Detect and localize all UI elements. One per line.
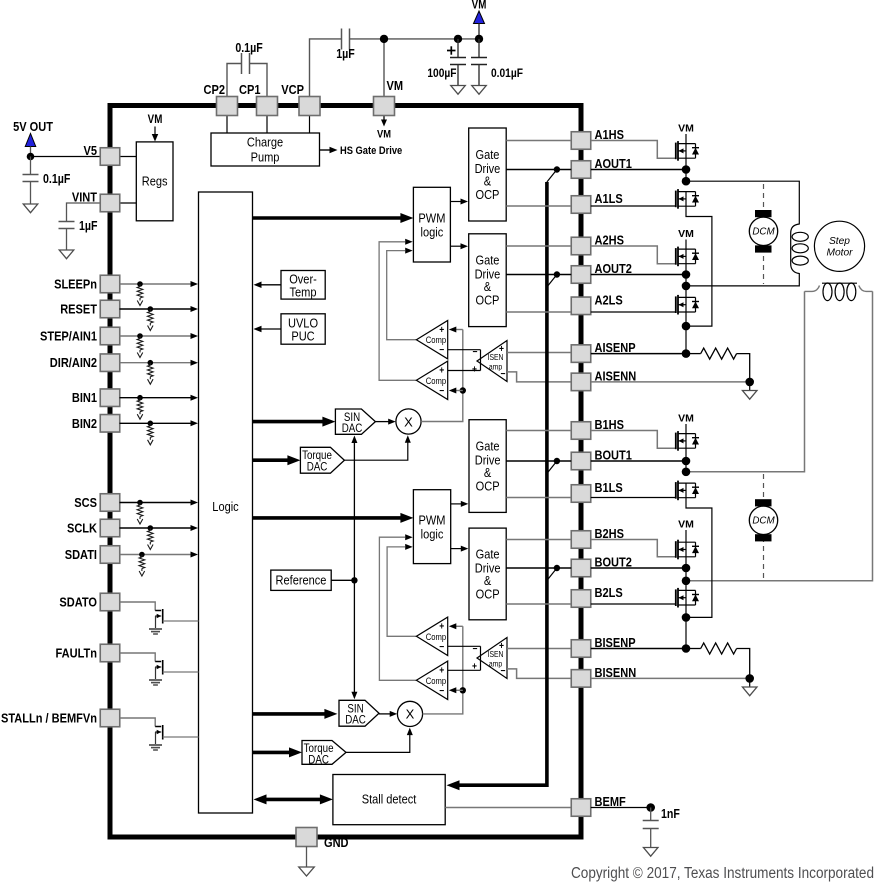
- resistor B sense: [686, 648, 701, 650]
- wire 0.1uF cap to CP1: [250, 64, 268, 98]
- multiplier X1: [396, 409, 421, 434]
- svg-text:B1LS: B1LS: [595, 480, 623, 495]
- junction BISENN ground node: [745, 674, 754, 683]
- svg-text:−: −: [439, 641, 444, 652]
- wire HS Gate Drive arrow: [320, 149, 332, 151]
- svg-text:0.1µF: 0.1µF: [235, 41, 262, 55]
- svg-text:1µF: 1µF: [336, 47, 355, 61]
- wire Gate Drive3 to BOUT1: [506, 460, 571, 462]
- motor DCM B top brush: [755, 499, 772, 506]
- svg-text:−: −: [439, 345, 444, 356]
- svg-text:+: +: [439, 365, 444, 376]
- svg-text:Logic: Logic: [212, 499, 238, 514]
- svg-text:PWM: PWM: [418, 211, 445, 226]
- pin SCS: [100, 494, 120, 512]
- pin BISENN: [571, 670, 591, 688]
- pin BIN1: [100, 389, 120, 407]
- wire Reference to node: [331, 579, 354, 581]
- capacitor 100uF plus sign: [447, 50, 456, 52]
- svg-text:Gate: Gate: [476, 439, 500, 454]
- junction B motor wire 1: [682, 468, 691, 477]
- wire PWM1 to Gate Drive 2: [450, 245, 461, 247]
- wire VM pin into chip: [383, 115, 385, 120]
- junction BISENP node: [682, 644, 691, 653]
- svg-text:PUC: PUC: [291, 328, 315, 343]
- capacitor 1uF (VCP-VM): [341, 29, 343, 50]
- svg-text:B2LS: B2LS: [595, 585, 623, 600]
- transistor A2HS FET: [675, 248, 677, 265]
- resistor pulldown BIN2: [149, 423, 151, 426]
- junction AOUT2 outer: [682, 270, 691, 279]
- pin VINT: [100, 194, 120, 212]
- supply 5V OUT triangle: [25, 134, 36, 147]
- svg-text:+: +: [439, 324, 444, 335]
- svg-text:VM: VM: [678, 123, 694, 135]
- junction RESET pulldown: [148, 306, 154, 312]
- wire A1HS gate: [591, 141, 676, 159]
- wire B motor wire 2: [686, 291, 873, 580]
- junction SCS pulldown: [137, 500, 143, 506]
- bus Logic to Stall detect (bidirectional): [262, 798, 323, 802]
- wire A2LS gate: [591, 311, 676, 313]
- wire Gate Drive1 to AOUT1: [506, 169, 571, 171]
- wire PWM2 to Gate Drive 3: [451, 503, 461, 505]
- junction BIN2 pulldown: [148, 421, 154, 427]
- pin BOUT1: [571, 452, 591, 470]
- transistor B2HS FET: [675, 541, 677, 558]
- block Gate Drive 4: [469, 528, 506, 620]
- pin GND: [296, 828, 317, 847]
- junction DIR/AIN2 pulldown: [148, 360, 154, 366]
- svg-text:CP2: CP2: [204, 82, 226, 97]
- svg-text:FAULTn: FAULTn: [56, 646, 97, 661]
- junction B motor wire 2: [682, 577, 691, 586]
- svg-text:Charge: Charge: [247, 135, 283, 150]
- wire comp B2 out to PWM2: [379, 537, 416, 680]
- svg-text:X: X: [406, 707, 415, 722]
- svg-text:HS Gate Drive: HS Gate Drive: [340, 145, 403, 157]
- pin BIN2: [100, 415, 120, 433]
- capacitor 1nF: [643, 820, 659, 822]
- svg-text:DAC: DAC: [307, 461, 328, 474]
- wire Over-Temp to Logic: [261, 284, 281, 286]
- svg-text:A2LS: A2LS: [595, 292, 623, 307]
- wire PWM2 to Gate Drive 4: [451, 548, 461, 550]
- supply VM triangle: [474, 11, 485, 24]
- junction SDATI pulldown: [139, 552, 145, 558]
- svg-text:DIR/AIN2: DIR/AIN2: [50, 355, 97, 370]
- dac SIN DAC 2: [339, 700, 379, 726]
- wire 100uF stem: [457, 39, 459, 58]
- wire Torque DAC2 to X2: [346, 733, 410, 752]
- svg-text:STALLn / BEMFVn: STALLn / BEMFVn: [1, 711, 97, 726]
- wire FAULTn to FET gate: [120, 653, 156, 662]
- svg-text:OCP: OCP: [475, 293, 499, 308]
- svg-text:Copyright © 2017, Texas Instru: Copyright © 2017, Texas Instruments Inco…: [571, 865, 874, 882]
- pin A2HS: [571, 237, 591, 255]
- ground below GND pin: [299, 867, 315, 876]
- block PWM logic 1: [413, 187, 450, 262]
- wire ISEN B out to comps: [448, 645, 481, 647]
- svg-text:−: −: [473, 346, 478, 357]
- wire V5 node to V5 pin: [31, 156, 101, 158]
- junction AOUT1 inner: [554, 166, 560, 172]
- pin B1LS: [571, 485, 591, 503]
- wire VINT pin to Regs: [120, 202, 137, 204]
- wire SCS to Logic: [120, 502, 192, 504]
- comparator Comp A2: [416, 361, 447, 399]
- svg-text:VM: VM: [387, 78, 404, 93]
- wire BIN1 to Logic: [120, 397, 192, 399]
- wire 1uF cap to VM rail: [350, 38, 480, 40]
- wire BISENP to sense node: [591, 648, 686, 650]
- wire B1LS source jog: [686, 498, 712, 618]
- ground A sense: [742, 391, 757, 400]
- wire 0.01uF stem: [478, 39, 480, 58]
- bus Logic to Torque DAC 2: [253, 751, 293, 755]
- capacitor 0.1uF (V5): [23, 174, 39, 176]
- resistor pulldown SLEEPn: [139, 284, 141, 287]
- wire V5 node to 0.1uF: [30, 157, 32, 175]
- svg-text:Gate: Gate: [475, 147, 499, 162]
- resistor A sense: [686, 353, 701, 355]
- resistor pulldown SCLK: [149, 528, 151, 531]
- svg-text:OCP: OCP: [475, 187, 499, 202]
- wire BOUT2 to FET node: [591, 567, 686, 569]
- wire 0.1uF V5 to ground: [30, 182, 32, 205]
- amplifier ISEN amp A: [477, 341, 507, 382]
- svg-text:logic: logic: [421, 527, 444, 542]
- dac Torque DAC 2: [302, 741, 346, 765]
- svg-text:SCS: SCS: [74, 495, 97, 510]
- wire STALLn/BEMFVn FET drain to Logic: [163, 736, 199, 738]
- bus Logic to Torque DAC 1: [253, 458, 291, 462]
- svg-text:SDATO: SDATO: [59, 595, 97, 610]
- pin A1LS: [571, 196, 591, 214]
- svg-text:GND: GND: [324, 835, 349, 850]
- wire Gate Drive2 to AOUT2: [506, 274, 571, 276]
- ground below V5 cap: [23, 204, 38, 213]
- wire Gate Drive2 to A2HS: [506, 245, 571, 247]
- pin B2HS: [571, 531, 591, 549]
- svg-text:VM: VM: [678, 228, 694, 240]
- wire FAULTn FET drain to Logic: [163, 671, 199, 673]
- wire Gate Drive4 to B2HS: [506, 539, 571, 541]
- wire BEMF pin to Stall detect: [445, 807, 571, 809]
- junction comp B2 minus: [460, 687, 466, 693]
- svg-text:VCP: VCP: [281, 82, 304, 97]
- block Over-Temp: [281, 271, 325, 300]
- wire A1LS gate: [591, 205, 676, 207]
- wire STALLn/BEMFVn to FET gate: [120, 718, 156, 727]
- ground below 0.01uF: [472, 86, 487, 95]
- transistor B2LS FET: [675, 589, 677, 606]
- capacitor 0.01uF: [471, 57, 487, 59]
- wire SLEEPn to Logic: [120, 283, 192, 285]
- svg-text:X: X: [404, 414, 413, 429]
- wire Gate Drive1 to A1LS: [506, 205, 571, 207]
- transistor open-drain FAULTn: [155, 661, 161, 663]
- resistor pulldown SCS: [139, 503, 141, 506]
- wire PWM1 to Gate Drive 1: [450, 201, 461, 203]
- wire Reference to SIN DAC 1: [353, 441, 355, 580]
- svg-text:DCM: DCM: [752, 515, 775, 526]
- wire STEP/AIN1 to Logic: [120, 335, 192, 337]
- wire B1HS FET to BOUT1: [685, 448, 687, 472]
- wire VINT to 1uF: [67, 203, 101, 222]
- junction BOUT1 inner: [554, 458, 560, 464]
- wire VM to B1HS FET: [685, 424, 687, 434]
- wire VM into Regs: [154, 127, 156, 137]
- motor DCM A bottom brush: [755, 245, 772, 252]
- svg-text:1µF: 1µF: [79, 219, 98, 233]
- svg-text:VM: VM: [678, 413, 694, 425]
- pin A2LS: [571, 297, 591, 315]
- wire VM rail down to VM pin: [383, 39, 385, 97]
- ground below 1nF: [643, 848, 658, 857]
- block Gate Drive 3: [469, 420, 506, 513]
- pin AOUT1: [571, 161, 591, 179]
- svg-text:100µF: 100µF: [427, 67, 456, 80]
- pin A1HS: [571, 132, 591, 150]
- wire 1uF VINT to ground: [66, 229, 68, 251]
- wire BEMF mux arrow into Stall detect: [447, 780, 460, 790]
- wire CP1 to charge pump: [266, 115, 268, 133]
- svg-text:Pump: Pump: [251, 150, 280, 165]
- wire Reference to SIN DAC 2: [353, 580, 355, 694]
- wire BISENN to ground: [749, 678, 751, 687]
- svg-text:Regs: Regs: [142, 174, 168, 189]
- svg-text:logic: logic: [421, 225, 444, 240]
- svg-text:Gate: Gate: [475, 253, 499, 268]
- wire AISENP to sense node: [591, 353, 686, 355]
- wire ISEN A plus input: [507, 352, 571, 354]
- svg-text:A1LS: A1LS: [595, 191, 623, 206]
- svg-text:+: +: [499, 640, 504, 651]
- wire Gate Drive4 to BOUT2: [506, 567, 571, 569]
- wire Gate Drive3 to B1HS: [506, 430, 571, 432]
- svg-text:V5: V5: [83, 143, 97, 158]
- pin BOUT2: [571, 559, 591, 577]
- wire CP2 to 0.1uF cap: [227, 64, 242, 98]
- svg-text:Temp: Temp: [290, 284, 317, 299]
- wire AISENN to ground: [749, 382, 751, 391]
- svg-text:VM: VM: [678, 519, 694, 531]
- junction AISENP node: [682, 349, 691, 358]
- wire RESET to Logic: [120, 308, 192, 310]
- wire ISEN A out to comps: [448, 349, 481, 351]
- resistor pulldown DIR/AIN2: [149, 363, 151, 366]
- svg-text:−: −: [439, 685, 444, 696]
- pin STALLn / BEMFVn: [100, 709, 120, 727]
- transistor open-drain SDATO: [155, 610, 161, 612]
- wire A2HS gate: [591, 246, 676, 264]
- pin SCLK: [100, 519, 120, 537]
- transistor A1HS FET: [675, 143, 677, 160]
- wire SDATI to Logic: [120, 554, 192, 556]
- wire A motor wire 1: [686, 181, 799, 224]
- pin SLEEPn: [100, 275, 120, 293]
- svg-text:0.1µF: 0.1µF: [43, 172, 70, 186]
- resistor pulldown RESET: [149, 309, 151, 312]
- svg-text:BIN1: BIN1: [72, 390, 97, 405]
- svg-text:DCM: DCM: [752, 226, 775, 237]
- wire comp B1 out to PWM2: [387, 547, 416, 636]
- motor Step Motor: [814, 221, 864, 271]
- pin RESET: [100, 300, 120, 318]
- block PWM logic 2: [413, 490, 450, 564]
- svg-text:SDATI: SDATI: [65, 547, 97, 562]
- wire comp A1 out to PWM1: [387, 251, 417, 340]
- wire 1nF to ground: [650, 829, 652, 848]
- pin V5: [100, 148, 120, 166]
- comparator Comp A1: [416, 321, 447, 359]
- wire 5V triangle to node: [30, 147, 32, 158]
- wire Torque DAC1 to X1: [344, 441, 407, 460]
- wire AOUT1 to FET node: [591, 169, 686, 171]
- motor DCM B body: [749, 506, 777, 534]
- junction A motor wire 2: [682, 282, 691, 291]
- svg-text:STEP/AIN1: STEP/AIN1: [40, 329, 97, 344]
- junction BIN1 pulldown: [137, 395, 143, 401]
- wire B motor wire 1: [686, 291, 805, 471]
- svg-text:Step: Step: [829, 236, 850, 247]
- junction BOUT2 outer: [682, 564, 691, 573]
- junction A sense node: [682, 322, 691, 331]
- bus Logic to PWM logic 1: [253, 216, 404, 220]
- dac SIN DAC 1: [335, 409, 375, 434]
- wire ISEN B minus input: [507, 669, 571, 679]
- wire SDATO to FET gate: [120, 602, 156, 611]
- wire B2HS gate: [591, 540, 676, 557]
- wire Gate Drive3 to B1LS: [506, 497, 571, 499]
- pin B1HS: [571, 422, 591, 440]
- junction BOUT1 outer: [682, 457, 691, 466]
- svg-text:DAC: DAC: [345, 714, 366, 727]
- ground below VINT cap: [59, 250, 74, 259]
- wire BEMF external: [591, 807, 651, 809]
- svg-text:−: −: [439, 385, 444, 396]
- wire SDATO FET drain to Logic: [163, 620, 199, 622]
- wire X1 to comp A2 minus: [456, 390, 463, 392]
- wire VM to A1HS FET: [685, 134, 687, 144]
- pin SDATO: [100, 593, 120, 611]
- wire 0.01uF to ground: [478, 65, 480, 86]
- svg-text:OCP: OCP: [476, 479, 500, 494]
- IC chip body outline: [110, 106, 581, 838]
- junction AISENN ground node: [745, 378, 754, 387]
- switch stub AOUT1: [547, 170, 557, 183]
- switch stub BOUT2: [547, 568, 557, 581]
- svg-text:1nF: 1nF: [661, 807, 680, 821]
- svg-text:DAC: DAC: [308, 754, 329, 767]
- junction VM pin top: [380, 35, 388, 43]
- junction B sense node: [682, 613, 691, 622]
- junction 100uF node: [454, 35, 462, 43]
- switch stub AOUT2: [547, 275, 557, 288]
- svg-text:+: +: [439, 621, 444, 632]
- wire SCLK to Logic: [120, 527, 192, 529]
- wire X2 to comp B2 minus: [456, 689, 463, 691]
- pin VM: [374, 97, 395, 116]
- wire SIN DAC2 to X2: [379, 713, 391, 715]
- inductor phase B winding: [805, 286, 873, 292]
- wire B1LS gate: [591, 497, 676, 499]
- bus Logic to SIN DAC 2: [253, 712, 328, 716]
- switch stub BOUT1: [547, 461, 557, 474]
- wire AISENN: [591, 381, 750, 383]
- block Regs: [136, 142, 173, 221]
- pin FAULTn: [100, 644, 120, 662]
- junction AOUT2 inner: [554, 271, 560, 277]
- motor DCM A top brush: [755, 210, 772, 217]
- pin AOUT2: [571, 266, 591, 284]
- pin SDATI: [100, 546, 120, 564]
- wire Gate Drive1 to A1HS: [506, 140, 571, 142]
- wire VM to B2HS FET: [685, 530, 687, 542]
- wire X2 to comp B1 plus: [456, 625, 463, 627]
- pin STEP/AIN1: [100, 327, 120, 345]
- svg-text:+: +: [499, 343, 504, 354]
- junction V5 node: [27, 153, 35, 161]
- wire BIN2 to Logic: [120, 422, 192, 424]
- transistor A2LS FET: [675, 296, 677, 313]
- wire ISEN B plus input: [507, 648, 571, 650]
- wire VCP up to 1uF cap: [310, 39, 342, 97]
- block UVLO PUC: [281, 314, 325, 344]
- bus Logic to SIN DAC 1: [253, 420, 326, 424]
- motor DCM A body: [749, 217, 777, 245]
- capacitor 0.1uF (CP1-CP2): [241, 53, 243, 74]
- wire X1 output: [421, 330, 463, 422]
- block Stall detect: [333, 775, 445, 825]
- junction SLEEPn pulldown: [137, 281, 143, 287]
- svg-text:Reference: Reference: [276, 573, 327, 588]
- wire A1LS source jog: [686, 206, 712, 326]
- svg-text:Motor: Motor: [826, 247, 853, 258]
- svg-text:−: −: [501, 665, 506, 676]
- comparator Comp B2: [416, 661, 447, 699]
- wire V5 pin to Regs: [120, 156, 137, 158]
- pin VCP: [299, 97, 320, 116]
- wire A motor wire 2: [686, 273, 799, 286]
- multiplier X2: [397, 701, 422, 726]
- bus Logic to PWM logic 2: [253, 516, 404, 520]
- pin BEMF: [571, 799, 591, 817]
- wire AOUT2 to FET node: [591, 274, 686, 276]
- resistor pulldown STEP/AIN1: [139, 336, 141, 339]
- svg-text:SCLK: SCLK: [67, 521, 97, 536]
- wire comp A2 out to PWM1: [379, 242, 416, 380]
- svg-text:DAC: DAC: [342, 422, 363, 435]
- resistor pulldown SDATI: [141, 555, 143, 558]
- pin B2LS: [571, 590, 591, 608]
- wire BEMF cap stem: [650, 808, 652, 821]
- capacitor 1uF (VINT): [59, 221, 75, 223]
- wire X2 output: [423, 626, 463, 714]
- pin DIR/AIN2: [100, 354, 120, 372]
- pin CP2: [217, 97, 238, 116]
- pin AISENP: [571, 345, 591, 363]
- block Gate Drive 2: [469, 234, 507, 327]
- svg-text:BIN2: BIN2: [72, 416, 97, 431]
- dac Torque DAC 1: [300, 447, 344, 473]
- transistor B1HS FET: [675, 433, 677, 450]
- svg-text:VM: VM: [377, 129, 391, 141]
- pin CP1: [257, 97, 278, 116]
- inductor phase A winding: [791, 224, 800, 274]
- ground below 100uF: [451, 86, 466, 95]
